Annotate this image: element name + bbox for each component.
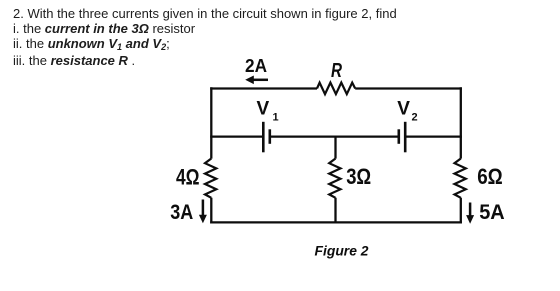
wire top-left segment [210, 87, 317, 89]
svg-text:6Ω: 6Ω [477, 164, 503, 189]
wire top-right segment [355, 87, 462, 89]
svg-text:R: R [331, 60, 342, 82]
wire middle right segment [406, 135, 462, 137]
battery V1 tall plate [262, 122, 265, 153]
svg-text:V: V [257, 99, 270, 120]
wire bottom [210, 221, 462, 223]
svg-text:2A: 2A [245, 56, 267, 76]
svg-text:3Ω: 3Ω [346, 164, 371, 189]
current arrow 3A [199, 200, 207, 224]
svg-text:4Ω: 4Ω [176, 164, 200, 189]
label V1 [257, 99, 279, 124]
wire left rail lower [210, 198, 212, 224]
wire left rail upper [210, 87, 212, 158]
wire middle left segment [210, 135, 262, 137]
battery V2 short plate [397, 129, 400, 144]
wire right rail lower [460, 198, 462, 224]
wire right rail upper [460, 87, 462, 158]
battery V2 tall plate [404, 122, 407, 153]
svg-text:V: V [397, 99, 410, 120]
wire center branch upper [334, 137, 336, 159]
svg-text:3A: 3A [170, 200, 193, 224]
wire center branch lower [334, 198, 336, 224]
resistor R zigzag [317, 83, 355, 95]
resistor 3ohm zigzag [329, 159, 340, 198]
resistor 4ohm zigzag [205, 159, 216, 198]
resistor 6ohm zigzag [455, 159, 466, 198]
svg-text:Figure 2: Figure 2 [315, 243, 369, 259]
battery V1 short plate [268, 129, 271, 144]
current arrow 5A [466, 203, 474, 224]
svg-text:5A: 5A [479, 200, 505, 224]
label V2 [397, 99, 417, 124]
current arrow 2A [245, 76, 268, 85]
svg-text:1: 1 [273, 111, 279, 123]
svg-text:2: 2 [412, 111, 418, 123]
wire middle center segment [271, 135, 398, 137]
